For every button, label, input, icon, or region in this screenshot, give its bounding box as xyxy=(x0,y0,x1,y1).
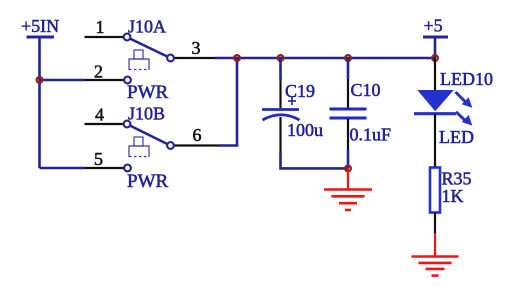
wire pin5 horizontal xyxy=(40,167,86,170)
resistor R35 value 1K xyxy=(442,186,464,206)
net label PWR (lower) xyxy=(127,171,169,192)
junction dot node at (348,168) xyxy=(345,166,351,172)
switch J10B pin5 contact circle xyxy=(124,165,131,172)
pin 2 lead xyxy=(85,79,124,81)
svg-text:5: 5 xyxy=(94,149,103,169)
svg-text:3: 3 xyxy=(192,38,201,58)
junction dot node at (39.5,80) xyxy=(37,77,43,83)
switch J10B pin4 contact circle xyxy=(124,121,131,128)
svg-text:C19: C19 xyxy=(285,81,315,101)
capacitor C10 bottom plate xyxy=(330,117,367,120)
LED triangle xyxy=(417,90,453,111)
wire C10 top xyxy=(347,58,350,79)
LED emission arrow 1 xyxy=(456,92,473,108)
svg-text:J10A: J10A xyxy=(128,17,166,37)
wire C19 top xyxy=(279,58,282,79)
resistor R35 designator xyxy=(442,169,472,189)
LED emission arrow 2 xyxy=(456,112,472,126)
pin 3 lead xyxy=(174,57,216,59)
svg-text:1: 1 xyxy=(96,17,105,37)
svg-text:+5: +5 xyxy=(424,16,443,36)
LED10 designator xyxy=(440,69,493,89)
svg-text:6: 6 xyxy=(193,125,202,145)
wire C19 bottom corner to junction xyxy=(281,153,349,168)
power port +5IN bar xyxy=(27,36,55,39)
switch J10A pushbutton icon xyxy=(129,50,149,70)
switch J10B common pin6 contact circle xyxy=(167,142,174,149)
junction dot node at (435,58) xyxy=(432,55,438,61)
svg-text:LED: LED xyxy=(439,127,474,147)
capacitor C19 plus sign xyxy=(288,97,296,105)
power port +5 bar xyxy=(423,36,448,39)
power port +5 label xyxy=(424,16,443,36)
pin number 5 xyxy=(94,149,103,169)
svg-text:4: 4 xyxy=(95,105,104,125)
svg-text:+5IN: +5IN xyxy=(21,16,59,36)
junction dot node at (348,58) xyxy=(345,55,351,61)
net label PWR (upper) xyxy=(127,82,169,103)
LED D anode lead xyxy=(434,58,436,92)
switch J10A pin2 contact circle xyxy=(124,77,131,84)
LED cathode bar xyxy=(414,112,456,115)
svg-text:C10: C10 xyxy=(351,80,381,100)
svg-text:LED10: LED10 xyxy=(440,69,493,89)
svg-text:100u: 100u xyxy=(287,120,323,140)
svg-text:0.1uF: 0.1uF xyxy=(350,125,392,145)
pin number 4 xyxy=(95,105,104,125)
pin number 2 xyxy=(94,62,103,82)
svg-text:PWR: PWR xyxy=(127,82,169,103)
capacitor C19 curved bottom plate xyxy=(263,115,300,120)
svg-text:PWR: PWR xyxy=(127,171,169,192)
wire left vertical from +5IN to pin5 corner xyxy=(38,37,41,168)
capacitor C10 value 0.1uF xyxy=(350,125,392,145)
capacitor C10 top lead xyxy=(347,79,349,108)
resistor R35 bottom lead xyxy=(434,213,436,235)
pin number 1 xyxy=(96,17,105,37)
capacitor C19 bottom lead xyxy=(279,117,281,153)
ground symbol (middle) xyxy=(324,168,372,210)
switch J10B pushbutton icon xyxy=(129,137,149,157)
junction dot node at (280,58) xyxy=(278,55,284,61)
LED type label xyxy=(439,127,474,147)
pin 1 lead xyxy=(85,36,124,38)
wire top horizontal bus xyxy=(215,57,435,60)
power port +5IN label xyxy=(21,16,59,36)
svg-text:2: 2 xyxy=(94,62,103,82)
wire +5 stem xyxy=(434,37,437,58)
junction dot node at (237,58) xyxy=(234,55,240,61)
pin 5 lead xyxy=(85,167,124,169)
svg-text:J10B: J10B xyxy=(128,104,165,124)
capacitor C10 top plate xyxy=(330,108,367,111)
capacitor C10 bottom lead xyxy=(347,119,349,150)
switch J10B blade xyxy=(130,126,168,145)
svg-text:1K: 1K xyxy=(442,186,464,206)
switch J10A pin1 contact circle xyxy=(124,34,131,41)
wire C10 bottom xyxy=(347,150,350,168)
capacitor C19 value 100u xyxy=(287,120,323,140)
capacitor C19 top lead xyxy=(279,79,281,108)
switch J10A common pin3 contact circle xyxy=(167,55,174,62)
capacitor C10 designator xyxy=(351,80,381,100)
switch J10A designator xyxy=(128,17,166,37)
pin 6 lead xyxy=(174,144,220,146)
pin 4 lead xyxy=(85,123,124,125)
pin number 6 xyxy=(193,125,202,145)
ground symbol (right) xyxy=(412,233,459,276)
switch J10A blade xyxy=(130,39,168,57)
switch J10B designator xyxy=(128,104,165,124)
pin number 3 xyxy=(192,38,201,58)
capacitor C19 top plate xyxy=(262,108,299,111)
resistor R35 body xyxy=(430,168,440,213)
wire pin2 horizontal xyxy=(40,79,86,82)
wire pin6 to right vertical xyxy=(219,58,237,146)
LED cathode lead xyxy=(434,114,436,168)
capacitor C19 designator xyxy=(285,81,315,101)
